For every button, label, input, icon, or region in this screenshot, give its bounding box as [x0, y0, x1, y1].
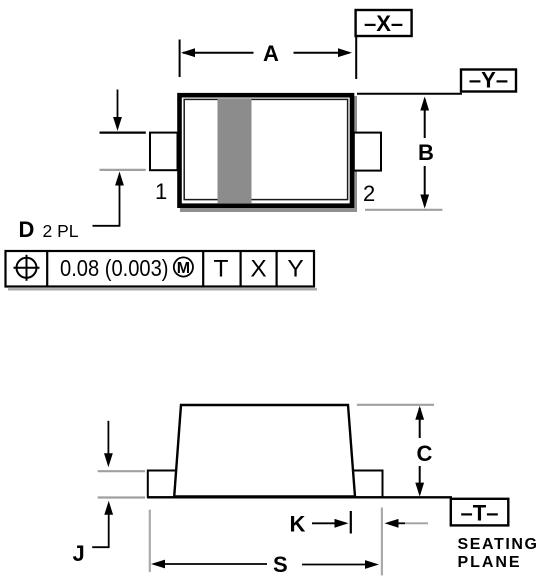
svg-text:PLANE: PLANE: [458, 554, 520, 571]
svg-text:M: M: [177, 260, 190, 277]
dimension C extension line (gray, top): [357, 404, 434, 406]
dimension B line with outward arrowheads: [424, 99, 426, 206]
svg-text:X: X: [250, 256, 266, 283]
svg-text:2: 2: [363, 181, 375, 206]
svg-text:K: K: [290, 512, 306, 537]
svg-text:J: J: [73, 541, 85, 566]
MMC modifier symbol: [174, 257, 193, 276]
svg-text:C: C: [417, 441, 433, 466]
svg-text:–T–: –T–: [461, 501, 499, 526]
svg-text:B: B: [418, 140, 434, 165]
cathode band (gray): [218, 99, 252, 204]
datum -T- box: [451, 499, 509, 526]
dimension C line with outward arrowheads: [419, 408, 421, 494]
J extension line top (gray): [98, 470, 145, 472]
left extension line (gray, lead outer edge): [149, 510, 151, 572]
J extension line bottom (gray): [98, 496, 145, 498]
body side profile (trapezoid): [174, 405, 355, 497]
svg-text:–X–: –X–: [364, 11, 403, 36]
svg-text:S: S: [273, 552, 288, 577]
D extension line top (black): [100, 132, 146, 134]
lead 2 (right tab): [354, 133, 381, 171]
datum -X- box: [356, 10, 412, 36]
K tick mark (lead inner edge extended): [350, 511, 352, 534]
dimension A extension line right / datum X leader: [355, 36, 357, 80]
lead 1 (left tab): [150, 133, 178, 171]
B bottom extension line (gray): [365, 209, 442, 211]
K/S right arrow (points left to lead outer edge): [385, 519, 399, 528]
true position symbol: [14, 255, 40, 281]
svg-text:SEATING: SEATING: [458, 536, 538, 553]
body inner thin outline: [184, 99, 347, 199]
dimension K arrow (points right to lead edge): [312, 522, 336, 524]
dimension A line with outward arrowheads: [183, 52, 349, 54]
lead 1 side profile (left): [148, 471, 179, 498]
svg-text:1: 1: [155, 179, 167, 204]
dimension S line with outward arrowheads: [151, 560, 165, 569]
svg-text:T: T: [214, 256, 229, 283]
seating plane line: [148, 496, 453, 498]
package body outline (thick rect): [180, 95, 353, 206]
datum Y line (body top extended): [357, 93, 462, 95]
svg-text:Y: Y: [287, 256, 303, 283]
D extension line bottom (gray): [100, 169, 146, 171]
dimension D up arrow and leader: [115, 172, 124, 186]
feature control frame box: [6, 251, 315, 287]
svg-text:A: A: [263, 41, 279, 66]
svg-text:0.08 (0.003): 0.08 (0.003): [60, 255, 169, 281]
svg-text:2 PL: 2 PL: [43, 221, 79, 241]
frame shadow: [8, 288, 317, 290]
dimension J down arrow: [107, 421, 109, 456]
frame cell dividers: [47, 251, 276, 287]
svg-text:D: D: [19, 217, 35, 242]
dimension A extension line left: [179, 40, 181, 78]
datum -Y- box: [461, 70, 516, 92]
right extension line (gray, lead outer edge): [381, 508, 383, 576]
body shadow (gray, bottom and right): [180, 96, 357, 212]
lead 2 side profile (right): [352, 471, 383, 498]
dimension J up arrow and leader: [104, 501, 113, 515]
dimension D down arrow: [117, 90, 119, 121]
svg-text:–Y–: –Y–: [469, 68, 508, 93]
